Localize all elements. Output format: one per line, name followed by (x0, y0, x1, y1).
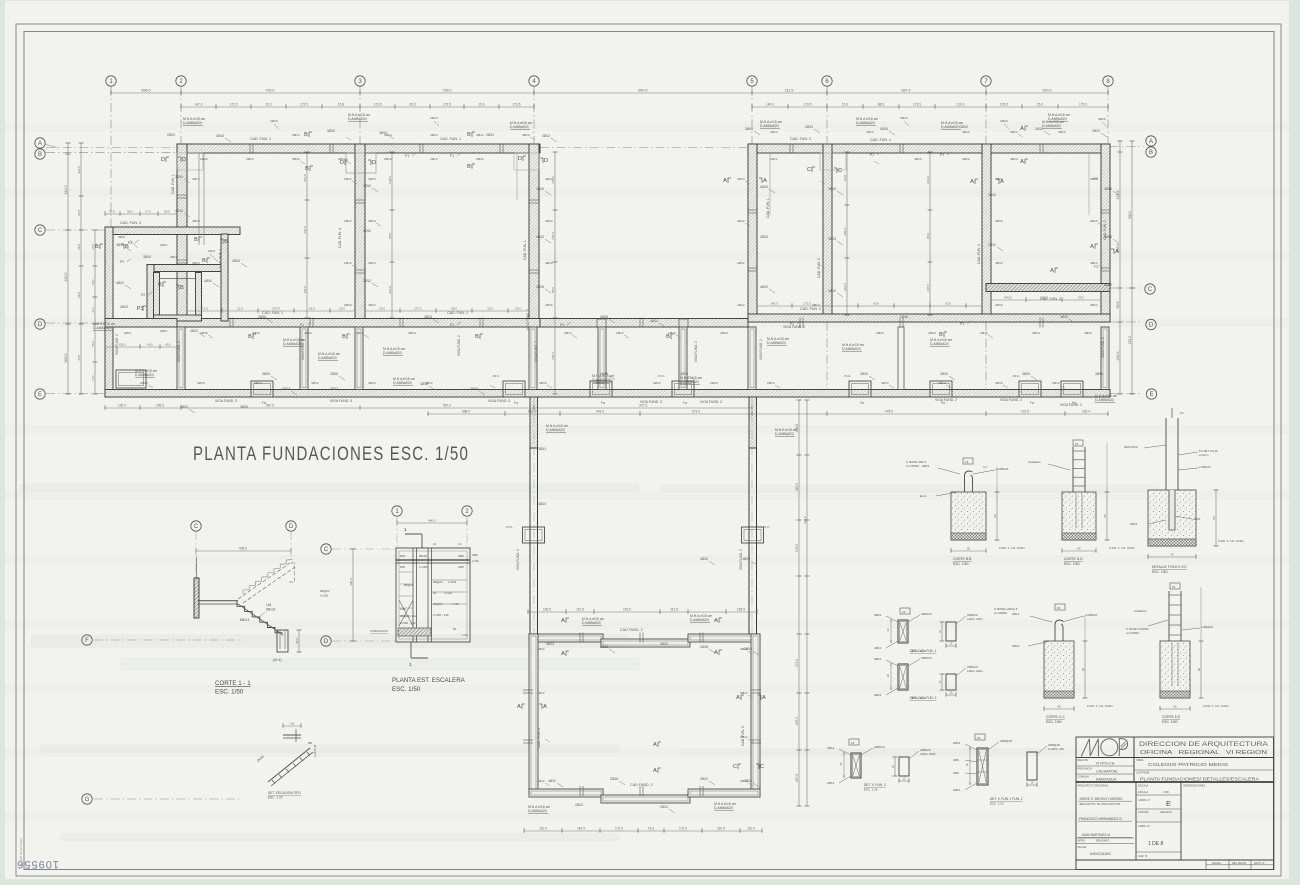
svg-text:2Ø12: 2Ø12 (363, 279, 371, 283)
svg-text:50: 50 (1212, 516, 1216, 520)
svg-text:VIGA FUND. 2: VIGA FUND. 2 (759, 339, 763, 360)
svg-text:CadAdicc: CadAdicc (1134, 609, 1147, 613)
svg-text:CORTE 1 - 1: CORTE 1 - 1 (215, 680, 251, 687)
svg-text:4Ø10: 4Ø10 (720, 331, 728, 335)
svg-text:D: D (544, 158, 548, 164)
svg-text:2Ø12: 2Ø12 (1130, 522, 1138, 526)
svg-text:3Ø13: 3Ø13 (564, 331, 572, 335)
svg-text:D.AMBaS20: D.AMBaS20 (393, 381, 412, 385)
svg-text:2Ø12: 2Ø12 (827, 781, 835, 785)
svg-text:2Ø12: 2Ø12 (988, 243, 996, 247)
svg-text:2Ø16: 2Ø16 (610, 777, 618, 781)
svg-text:L=492 - 163: L=492 - 163 (400, 621, 416, 625)
svg-text:E: E (1166, 799, 1171, 808)
svg-text:CAD. FUN. 1: CAD. FUN. 1 (447, 311, 468, 315)
svg-text:4Ø12: 4Ø12 (740, 691, 748, 695)
svg-text:DIRECCION DE ARQUITECTURA: DIRECCION DE ARQUITECTURA (1139, 741, 1269, 748)
svg-text:65.0: 65.0 (91, 244, 95, 250)
svg-text:E: E (38, 392, 42, 398)
svg-text:3Ø10: 3Ø10 (1058, 130, 1066, 134)
svg-text:2Ø16: 2Ø16 (356, 331, 364, 335)
svg-text:3Ø10: 3Ø10 (363, 229, 371, 233)
svg-text:3Ø13: 3Ø13 (737, 177, 745, 181)
svg-text:4Ø10: 4Ø10 (600, 372, 608, 376)
svg-text:373.0: 373.0 (692, 410, 700, 414)
svg-text:15.0: 15.0 (487, 307, 493, 311)
svg-text:ESC. 1:10: ESC. 1:10 (912, 696, 926, 700)
svg-text:2Ø16: 2Ø16 (330, 372, 338, 376)
svg-text:173.5: 173.5 (679, 827, 687, 831)
svg-text:4Ø10: 4Ø10 (742, 557, 750, 561)
svg-text:2Ø12: 2Ø12 (330, 387, 338, 391)
svg-text:2Ø8: 2Ø8 (472, 553, 478, 557)
svg-text:≠Ø8x20: ≠Ø8x20 (921, 612, 932, 616)
svg-text:2Ø16: 2Ø16 (900, 315, 908, 319)
svg-text:N.T.: N.T. (983, 465, 988, 469)
svg-text:2Ø12: 2Ø12 (1012, 612, 1020, 616)
svg-text:3Ø13: 3Ø13 (1090, 177, 1098, 181)
svg-text:3Ø13: 3Ø13 (812, 303, 820, 307)
svg-text:2Ø12: 2Ø12 (160, 329, 168, 333)
svg-text:#8@20: #8@20 (320, 589, 330, 593)
svg-text:3Ø10: 3Ø10 (246, 157, 254, 161)
svg-text:3Ø13: 3Ø13 (828, 237, 836, 241)
svg-text:163.0: 163.0 (623, 608, 631, 612)
svg-text:A: A (38, 141, 42, 147)
svg-text:2Ø12: 2Ø12 (827, 746, 835, 750)
svg-text:B: B (342, 334, 346, 340)
svg-text:55.5: 55.5 (164, 210, 170, 214)
svg-text:A: A (1020, 126, 1024, 132)
svg-text:2Ø16: 2Ø16 (258, 315, 266, 319)
svg-text:A: A (1020, 159, 1024, 165)
svg-text:538.0: 538.0 (388, 176, 392, 184)
svg-text:3Ø10: 3Ø10 (292, 157, 300, 161)
svg-text:D.AMBaS20: D.AMBaS20 (383, 351, 402, 355)
svg-text:B: B (202, 258, 206, 264)
svg-text:A: A (736, 695, 740, 701)
svg-text:311.5: 311.5 (785, 89, 794, 93)
svg-text:PLANTA FUNDACIONES/ DETALLES/E: PLANTA FUNDACIONES/ DETALLES/ESCALERA (1140, 777, 1259, 782)
svg-text:2Ø12: 2Ø12 (575, 803, 583, 807)
svg-text:D.AMBaS20: D.AMBaS20 (1042, 124, 1061, 128)
svg-text:15.0: 15.0 (478, 103, 484, 107)
svg-text:VI RTG-CH.: VI RTG-CH. (1096, 762, 1115, 766)
svg-text:B: B (224, 239, 228, 245)
svg-text:3Ø10: 3Ø10 (327, 129, 335, 133)
svg-text:111.5: 111.5 (670, 608, 678, 612)
svg-text:A: A (1115, 249, 1119, 255)
svg-text:55.5: 55.5 (1116, 302, 1120, 309)
svg-text:CAD FUND. 2: CAD FUND. 2 (620, 628, 643, 632)
svg-text:2Ø12: 2Ø12 (344, 219, 352, 223)
svg-text:#8@20 - 142: #8@20 - 142 (400, 614, 417, 618)
svg-text:2Ø12: 2Ø12 (740, 735, 748, 739)
svg-text:REGION: REGION (1078, 758, 1088, 762)
svg-text:CAD. FUN. 1: CAD. FUN. 1 (870, 138, 891, 142)
svg-text:B: B (194, 237, 198, 243)
svg-text:172.5: 172.5 (230, 103, 238, 107)
svg-text:ESC. 1/50: ESC. 1/50 (1064, 562, 1080, 566)
svg-text:VIGA FUND. 2: VIGA FUND. 2 (783, 325, 805, 329)
svg-text:30: 30 (433, 591, 437, 595)
svg-text:15: 15 (902, 610, 906, 614)
svg-text:110.0: 110.0 (539, 827, 547, 831)
svg-text:300.5: 300.5 (64, 354, 68, 363)
svg-text:ESC. 1/50: ESC. 1/50 (392, 686, 421, 693)
svg-text:3Ø10: 3Ø10 (384, 133, 392, 137)
svg-text:793.0: 793.0 (443, 89, 452, 93)
svg-text:130.0: 130.0 (118, 404, 126, 408)
svg-text:DEN MICH: DEN MICH (1124, 445, 1138, 449)
svg-text:A: A (653, 742, 657, 748)
svg-text:A: A (561, 618, 565, 624)
svg-text:Ø8: Ø8 (308, 741, 312, 745)
svg-text:4Ø12: 4Ø12 (368, 303, 376, 307)
svg-text:65.0: 65.0 (309, 307, 315, 311)
svg-text:2Ø12: 2Ø12 (208, 249, 216, 253)
svg-text:A: A (1149, 139, 1153, 145)
svg-text:FUND. S. CAL. BUEN.: FUND. S. CAL. BUEN. (1203, 704, 1230, 708)
svg-text:CAD. FUN. 2: CAD. FUN. 2 (790, 137, 811, 141)
svg-text:-(91.5)-: -(91.5)- (272, 658, 282, 662)
svg-text:2Ø12: 2Ø12 (476, 157, 484, 161)
svg-text:15: 15 (851, 741, 855, 745)
svg-text:VIGA FUND. 2: VIGA FUND. 2 (700, 400, 722, 404)
svg-text:e=Ø8x20: e=Ø8x20 (1199, 465, 1211, 469)
svg-text:2Ø12: 2Ø12 (770, 157, 778, 161)
svg-text:4Ø12: 4Ø12 (430, 133, 438, 137)
svg-text:12: 12 (458, 542, 462, 546)
svg-text:3Ø10: 3Ø10 (175, 175, 183, 179)
svg-text:70.0: 70.0 (77, 355, 81, 361)
svg-text:REVISADO: REVISADO (1096, 839, 1109, 843)
svg-text:2Ø12: 2Ø12 (660, 805, 668, 809)
svg-text:Ø8x26: Ø8x26 (266, 608, 276, 612)
svg-text:508: 508 (400, 554, 405, 558)
svg-text:CACHAPOAL: CACHAPOAL (1096, 770, 1118, 774)
svg-text:3Ø10: 3Ø10 (760, 235, 768, 239)
svg-text:2Ø12: 2Ø12 (384, 157, 392, 161)
svg-text:896.0: 896.0 (142, 89, 151, 93)
svg-text:3Ø13: 3Ø13 (292, 133, 300, 137)
svg-text:B: B (1149, 150, 1153, 156)
svg-text:3Ø13: 3Ø13 (368, 261, 376, 265)
svg-text:4Ø10: 4Ø10 (700, 557, 708, 561)
svg-text:ESCALA: ESCALA (1138, 790, 1149, 794)
svg-text:ESC. 1:20: ESC. 1:20 (990, 802, 1004, 806)
svg-text:D.AMBaS20: D.AMBaS20 (767, 341, 786, 345)
svg-text:200.0: 200.0 (1040, 296, 1048, 300)
svg-text:VIGA FUND. 3: VIGA FUND. 3 (640, 400, 662, 404)
svg-text:CAD FUND. 2: CAD FUND. 2 (630, 783, 653, 787)
svg-text:2Ø12: 2Ø12 (953, 741, 961, 745)
svg-text:C: C (1148, 287, 1153, 293)
svg-text:CAD. FUN. 3: CAD. FUN. 3 (537, 728, 541, 748)
svg-text:246.3: 246.3 (1116, 352, 1120, 361)
svg-text:PLANTA FUNDACIONES ESC. 1/50: PLANTA FUNDACIONES ESC. 1/50 (193, 444, 469, 465)
svg-text:2Ø12: 2Ø12 (767, 381, 775, 385)
svg-text:15: 15 (965, 460, 969, 464)
svg-text:A: A (517, 704, 521, 710)
svg-text:433.0: 433.0 (303, 226, 307, 234)
svg-text:4Ø12: 4Ø12 (548, 779, 556, 783)
svg-text:-18-: -18- (289, 722, 294, 726)
svg-text:3Ø10: 3Ø10 (116, 243, 124, 247)
svg-text:2Ø12: 2Ø12 (338, 157, 346, 161)
svg-text:D: D (182, 157, 186, 163)
svg-text:4Ø10: 4Ø10 (252, 331, 260, 335)
svg-text:58.0: 58.0 (91, 279, 95, 285)
svg-text:CAD. FUN. 2: CAD. FUN. 2 (800, 307, 821, 311)
svg-text:125.5: 125.5 (1116, 191, 1120, 200)
svg-text:3Ø13: 3Ø13 (538, 447, 546, 451)
svg-text:VIGA FUND. 2: VIGA FUND. 2 (1060, 403, 1082, 407)
svg-text:2Ø12: 2Ø12 (1010, 130, 1018, 134)
svg-text:480.0: 480.0 (428, 519, 436, 523)
svg-text:638.0: 638.0 (803, 516, 807, 524)
svg-text:110.0: 110.0 (747, 827, 755, 831)
svg-text:FECHA: FECHA (1078, 845, 1087, 849)
svg-text:FRANCISCO HERNANDEZ S.: FRANCISCO HERNANDEZ S. (1079, 817, 1123, 821)
svg-text:P1: P1 (870, 153, 874, 157)
svg-text:P1: P1 (300, 323, 304, 327)
svg-text:235.0: 235.0 (551, 232, 555, 240)
svg-text:30: 30 (839, 762, 843, 766)
svg-text:4Ø12: 4Ø12 (542, 134, 550, 138)
svg-text:4Ø12: 4Ø12 (175, 209, 183, 213)
svg-text:-70.0-: -70.0- (657, 374, 665, 378)
svg-text:981.0: 981.0 (528, 410, 536, 414)
svg-text:183.5: 183.5 (543, 608, 551, 612)
svg-text:#8@22: #8@22 (404, 583, 414, 587)
svg-text:CAD. FUN. 1: CAD. FUN. 1 (219, 248, 223, 268)
svg-text:LARG. ADIC.: LARG. ADIC. (967, 617, 984, 621)
svg-text:1:50: 1:50 (1163, 790, 1169, 794)
svg-text:60: 60 (1197, 668, 1201, 672)
svg-text:3Ø16: 3Ø16 (1098, 117, 1106, 121)
svg-text:#8@12: #8@12 (433, 602, 443, 606)
svg-text:60: 60 (993, 514, 997, 518)
svg-text:172.5: 172.5 (795, 659, 799, 667)
svg-text:15: 15 (1075, 442, 1079, 446)
svg-text:3Ø10: 3Ø10 (240, 405, 248, 409)
svg-text:172.5: 172.5 (200, 307, 208, 311)
svg-text:2Ø12: 2Ø12 (1052, 381, 1060, 385)
svg-text:4Ø12: 4Ø12 (476, 133, 484, 137)
svg-text:VIGA FUND. 2: VIGA FUND. 2 (177, 341, 181, 362)
svg-text:ARCHIVO: ARCHIVO (1160, 810, 1172, 814)
svg-text:FECHA: FECHA (1212, 861, 1221, 865)
svg-text:D: D (1149, 323, 1154, 329)
svg-text:4Ø10: 4Ø10 (914, 157, 922, 161)
svg-text:3Ø10: 3Ø10 (216, 134, 224, 138)
svg-text:4Ø10: 4Ø10 (760, 185, 768, 189)
svg-text:L=150: L=150 (320, 594, 329, 598)
svg-text:CAD. FUN. 1: CAD. FUN. 1 (523, 240, 527, 260)
svg-text:3Ø16: 3Ø16 (270, 119, 278, 123)
svg-text:C: C (194, 524, 199, 530)
svg-text:3Ø10: 3Ø10 (1104, 235, 1112, 239)
svg-text:CAD. FUN. 1: CAD. FUN. 1 (766, 198, 770, 218)
svg-text:C: C (324, 547, 329, 553)
svg-text:610.0: 610.0 (303, 174, 307, 182)
svg-text:CAD. FUN. 1: CAD. FUN. 1 (440, 137, 461, 141)
svg-text:13.0: 13.0 (339, 307, 345, 311)
svg-text:P1: P1 (940, 153, 944, 157)
svg-text:2Ø12: 2Ø12 (600, 645, 608, 649)
svg-text:FUND. S. CAL. BUEN.: FUND. S. CAL. BUEN. (1087, 704, 1114, 708)
svg-text:D: D (289, 524, 294, 530)
svg-text:4Ø10: 4Ø10 (368, 381, 376, 385)
svg-text:D.AMBaS20: D.AMBaS20 (941, 125, 960, 129)
svg-text:508: 508 (400, 565, 405, 569)
svg-text:A: A (762, 695, 766, 701)
svg-text:JEFE DPTO. EL PROYECTOS: JEFE DPTO. EL PROYECTOS (1079, 802, 1120, 806)
svg-text:Fw: Fw (683, 401, 688, 405)
svg-text:D: D (38, 322, 43, 328)
svg-text:CORTE C-C: CORTE C-C (1046, 715, 1065, 719)
svg-text:15.0: 15.0 (379, 307, 385, 311)
svg-text:D.AMBaS20: D.AMBaS20 (1095, 398, 1114, 402)
svg-text:3Ø10: 3Ø10 (1022, 372, 1030, 376)
svg-text:4Ø10: 4Ø10 (304, 331, 312, 335)
svg-text:4Ø12: 4Ø12 (770, 130, 778, 134)
svg-text:D.AMBaS20: D.AMBaS20 (760, 124, 779, 128)
svg-text:A: A (763, 178, 767, 184)
svg-text:DETALLE FOSO E.V.C: DETALLE FOSO E.V.C (1152, 565, 1187, 569)
svg-text:PROVINCIA: PROVINCIA (1078, 767, 1093, 771)
svg-text:3Ø10: 3Ø10 (596, 381, 604, 385)
svg-text:60: 60 (1103, 514, 1107, 518)
svg-text:Em1: Em1 (920, 494, 927, 498)
svg-text:CONTIENE: CONTIENE (1136, 771, 1150, 775)
svg-text:2Ø12: 2Ø12 (1092, 129, 1100, 133)
svg-text:620.0: 620.0 (1043, 89, 1052, 93)
svg-text:2Ø12: 2Ø12 (805, 125, 813, 129)
svg-text:-70.0-: -70.0- (843, 374, 851, 378)
svg-text:107.0: 107.0 (926, 284, 930, 292)
svg-text:L=483: L=483 (419, 565, 428, 569)
svg-text:65: 65 (1077, 547, 1081, 551)
svg-text:175.0: 175.0 (1079, 103, 1087, 107)
svg-text:2Ø16: 2Ø16 (710, 381, 718, 385)
svg-text:3Ø10: 3Ø10 (408, 331, 416, 335)
svg-text:≠Ø8x20: ≠Ø8x20 (921, 656, 932, 660)
svg-text:4Ø10: 4Ø10 (760, 285, 768, 289)
svg-text:45.0: 45.0 (165, 343, 171, 347)
svg-text:2Ø12: 2Ø12 (537, 647, 545, 651)
svg-text:191.5: 191.5 (1021, 410, 1029, 414)
svg-text:60: 60 (965, 762, 969, 766)
svg-text:93.0: 93.0 (945, 302, 951, 306)
svg-text:LARG. ADIC.: LARG. ADIC. (967, 669, 984, 673)
svg-text:3Ø10: 3Ø10 (860, 372, 868, 376)
svg-text:2Ø12: 2Ø12 (118, 235, 126, 239)
svg-text:237.5: 237.5 (414, 307, 422, 311)
svg-text:OFICINA REGIONAL VI REGION: OFICINA REGIONAL VI REGION (1140, 750, 1267, 756)
svg-text:151.5: 151.5 (1128, 336, 1132, 344)
svg-text:2Ø12: 2Ø12 (922, 464, 930, 468)
svg-text:3Ø10: 3Ø10 (262, 372, 270, 376)
svg-text:1 DE 8: 1 DE 8 (1148, 841, 1164, 847)
svg-text:3Ø10: 3Ø10 (995, 303, 1003, 307)
svg-text:187.5: 187.5 (577, 827, 585, 831)
svg-text:173.5: 173.5 (913, 103, 921, 107)
svg-text:2Ø12: 2Ø12 (140, 381, 148, 385)
svg-text:2Ø12: 2Ø12 (344, 177, 352, 181)
svg-text:2Ø12: 2Ø12 (737, 261, 745, 265)
svg-text:D.AMBaS20: D.AMBaS20 (93, 326, 112, 330)
svg-text:4Ø10: 4Ø10 (1084, 331, 1092, 335)
svg-text:3Ø10: 3Ø10 (470, 387, 478, 391)
svg-text:L=122: L=122 (444, 591, 453, 595)
svg-text:18.5: 18.5 (77, 210, 81, 216)
svg-text:3Ø10: 3Ø10 (1095, 372, 1103, 376)
svg-text:135.0: 135.0 (119, 343, 126, 347)
svg-text:438.0: 438.0 (239, 547, 247, 551)
svg-text:2Ø12: 2Ø12 (124, 331, 132, 335)
svg-text:4Ø12: 4Ø12 (311, 381, 319, 385)
svg-text:B: B (467, 132, 471, 138)
svg-text:C: C (760, 764, 764, 770)
svg-text:55.5: 55.5 (551, 287, 555, 293)
svg-text:Fw: Fw (1030, 401, 1035, 405)
svg-text:3Ø16: 3Ø16 (430, 116, 438, 120)
svg-text:ARCH. Nº: ARCH. Nº (1254, 861, 1265, 865)
svg-text:3Ø10: 3Ø10 (740, 779, 748, 783)
svg-text:3Ø16: 3Ø16 (900, 116, 908, 120)
svg-text:e=3mm: e=3mm (1199, 453, 1209, 457)
svg-text:OBRA: OBRA (1136, 758, 1144, 762)
svg-text:B: B (158, 282, 162, 288)
svg-text:173.5: 173.5 (804, 103, 812, 107)
svg-text:Fw: Fw (514, 401, 519, 405)
svg-text:400.0: 400.0 (349, 578, 353, 586)
svg-text:F3: F3 (1094, 265, 1098, 269)
svg-text:cm MINIM: cm MINIM (1126, 631, 1139, 635)
svg-text:53.0: 53.0 (515, 307, 521, 311)
svg-text:P3: P3 (137, 306, 144, 312)
svg-text:3Ø10: 3Ø10 (363, 184, 371, 188)
svg-text:175.5: 175.5 (1000, 103, 1008, 107)
svg-text:2Ø12: 2Ø12 (170, 255, 178, 259)
svg-text:2Ø12: 2Ø12 (616, 331, 624, 335)
svg-text:D.AMBaS20: D.AMBaS20 (348, 117, 367, 121)
svg-text:95.0: 95.0 (926, 233, 930, 239)
svg-text:ESC. 1:20: ESC. 1:20 (268, 796, 283, 800)
svg-text:CAR. Nº: CAR. Nº (1138, 854, 1148, 858)
svg-text:D.AMBaS20: D.AMBaS20 (135, 373, 154, 377)
svg-text:D.AMBaS20: D.AMBaS20 (775, 432, 794, 436)
svg-text:50: 50 (453, 627, 457, 631)
svg-text:D.AMBaS20: D.AMBaS20 (582, 621, 601, 625)
svg-text:A: A (714, 618, 718, 624)
svg-text:3Ø10: 3Ø10 (344, 303, 352, 307)
svg-text:65: 65 (967, 547, 971, 551)
svg-text:ESC. 1/50: ESC. 1/50 (215, 689, 244, 696)
svg-text:65.0: 65.0 (451, 307, 457, 311)
svg-text:D.AMBaS20: D.AMBaS20 (690, 618, 709, 622)
svg-text:55.0: 55.0 (77, 292, 81, 298)
svg-text:112.5: 112.5 (576, 608, 584, 612)
svg-text:VIGA FUND. 2: VIGA FUND. 2 (301, 339, 305, 360)
svg-text:88.5: 88.5 (878, 103, 884, 107)
svg-text:A: A (561, 651, 565, 657)
svg-text:15: 15 (1057, 606, 1061, 610)
svg-text:Fo: Fo (1180, 411, 1184, 415)
svg-text:D.AMBaS20: D.AMBaS20 (842, 347, 861, 351)
